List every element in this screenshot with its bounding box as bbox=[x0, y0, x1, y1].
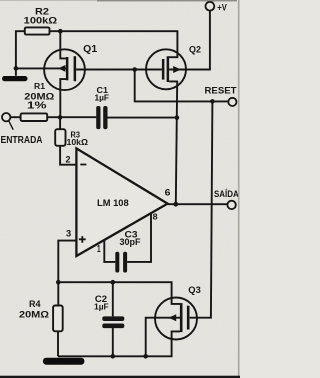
wire Q2 source feedback rail bbox=[169, 81, 177, 204]
svg-text:100kΩ: 100kΩ bbox=[24, 16, 58, 27]
terminal +V bbox=[206, 2, 215, 11]
svg-text:+V: +V bbox=[217, 2, 227, 12]
wire output to SAIDA bbox=[168, 203, 228, 205]
node G output junction bbox=[173, 202, 178, 207]
node B junction R2/Q1 drain bbox=[58, 29, 63, 34]
svg-text:Q1: Q1 bbox=[83, 44, 97, 55]
wire RESET from gates bbox=[135, 70, 229, 102]
transistor Q3 bbox=[155, 298, 197, 340]
page edge right bbox=[238, 0, 240, 378]
wire R4 bottom lead bbox=[57, 331, 59, 356]
svg-text:ENTRADA: ENTRADA bbox=[1, 135, 44, 146]
node F rail/C1 junction bbox=[175, 115, 180, 120]
ground (bottom bar) bbox=[43, 358, 85, 365]
terminal RESET bbox=[228, 98, 236, 106]
wire bottom ground bus to Q3 source bbox=[58, 331, 180, 356]
svg-text:1%: 1% bbox=[27, 101, 47, 112]
svg-text:6: 6 bbox=[165, 188, 171, 198]
wire R3 to pin 2 bbox=[60, 146, 76, 165]
wire Q1 substrate to ground bbox=[16, 67, 66, 69]
wire ENTRADA to R1 bbox=[10, 116, 20, 118]
minus sign bbox=[80, 164, 86, 166]
node C gates junction bbox=[132, 67, 137, 72]
ground (top left bar) bbox=[2, 76, 28, 81]
svg-text:10kΩ: 10kΩ bbox=[67, 137, 89, 147]
resistor R3 bbox=[55, 129, 65, 146]
wire Q2 substrate to +V bbox=[169, 11, 210, 70]
op-amp U1 LM 108 bbox=[76, 148, 167, 256]
node J C2 bottom junction bbox=[111, 354, 116, 359]
svg-text:30pF: 30pF bbox=[120, 237, 141, 247]
transistor Q1 bbox=[44, 49, 85, 117]
node K Q3 substrate junction bbox=[143, 354, 148, 359]
node A junction dot at ground rail bbox=[14, 66, 19, 71]
wire C1 to feedback rail bbox=[108, 117, 177, 119]
wire R2 left lead to ground bbox=[16, 31, 25, 76]
svg-text:RESET: RESET bbox=[205, 86, 237, 96]
terminal ENTRADA bbox=[2, 113, 10, 121]
wire to R3 bbox=[59, 117, 61, 129]
capacitor C3 bbox=[115, 252, 127, 273]
svg-text:1µF: 1µF bbox=[95, 92, 110, 102]
page edge top bbox=[97, 0, 237, 1]
wire pin 8 bbox=[127, 213, 151, 262]
svg-text:Q2: Q2 bbox=[189, 45, 201, 55]
svg-text:8: 8 bbox=[153, 212, 158, 222]
plus sign bbox=[79, 236, 86, 243]
svg-text:3: 3 bbox=[66, 229, 71, 239]
wire pin 1 bbox=[104, 240, 115, 262]
wire RESET rail to Q3 gate bbox=[190, 101, 213, 317]
resistor R2 bbox=[25, 27, 50, 34]
node E input junction bbox=[58, 115, 63, 120]
terminal SAIDA bbox=[227, 201, 235, 209]
wire R4 top lead bbox=[57, 282, 59, 305]
svg-text:20MΩ: 20MΩ bbox=[19, 309, 50, 320]
svg-text:Q3: Q3 bbox=[188, 285, 201, 295]
svg-text:1µF: 1µF bbox=[94, 301, 109, 311]
wire R2 right to Q2 drain bbox=[50, 31, 178, 57]
wire R1 to C1 bbox=[47, 116, 96, 118]
resistor R1 bbox=[21, 113, 48, 121]
resistor R4 bbox=[53, 306, 63, 332]
wire C2 bottom lead bbox=[112, 328, 114, 356]
wire C2 top lead bbox=[112, 282, 114, 316]
svg-text:2: 2 bbox=[66, 154, 71, 164]
svg-text:LM 108: LM 108 bbox=[97, 197, 129, 208]
wire Q1 drain bbox=[60, 31, 66, 58]
wire Q3 substrate bbox=[146, 318, 180, 357]
wire bottom bus to Q3 drain bbox=[58, 282, 180, 304]
node H pin3/R4 junction bbox=[56, 280, 61, 285]
svg-text:1: 1 bbox=[97, 244, 101, 255]
capacitor C2 bbox=[102, 316, 124, 328]
wire pin 3 input bbox=[58, 241, 76, 283]
svg-text:SAÍDA: SAÍDA bbox=[214, 188, 239, 200]
leader line bbox=[9, 121, 14, 130]
capacitor C1 bbox=[96, 106, 107, 129]
node D reset junction bbox=[210, 99, 215, 104]
node I C2 top junction bbox=[111, 280, 116, 285]
transistor Q2 bbox=[146, 49, 186, 89]
page edge bottom bbox=[0, 376, 240, 378]
wire gate bus Q1-Q2 bbox=[76, 69, 162, 71]
